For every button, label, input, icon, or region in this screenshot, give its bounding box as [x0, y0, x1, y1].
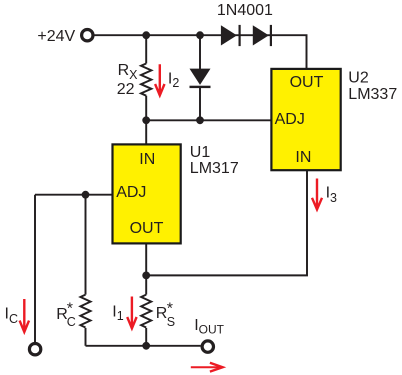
svg-text:IN: IN — [139, 151, 155, 168]
svg-text:ADJ: ADJ — [275, 111, 305, 128]
junction top rail / D3 — [196, 31, 204, 39]
svg-text:*: * — [167, 301, 173, 318]
junction ADJ rail / RC — [82, 191, 90, 199]
junction second rail / RX — [142, 116, 150, 124]
regulator U2 — [271, 69, 340, 170]
svg-text:LM317: LM317 — [190, 160, 239, 177]
current arrow IOUT — [210, 363, 223, 372]
junction top rail / RX — [142, 31, 150, 39]
svg-text:U2: U2 — [348, 69, 369, 86]
junction bottom rail / RS bottom — [142, 342, 150, 350]
wire RS branch lower — [145, 328, 147, 346]
svg-text:U1: U1 — [190, 144, 211, 161]
junction second rail / D3 — [196, 116, 204, 124]
terminal +24V — [82, 30, 93, 41]
terminal IC — [29, 344, 40, 355]
svg-text:22: 22 — [117, 81, 135, 98]
current arrow IC — [20, 299, 29, 332]
wire RX branch upper — [145, 35, 147, 63]
wire RS branch upper — [145, 275, 147, 294]
wire second rail to U2 ADJ pin — [146, 119, 271, 121]
svg-text:R: R — [156, 305, 168, 322]
current arrow I3 — [312, 179, 322, 210]
resistor RX — [141, 64, 151, 96]
diode D3 — [190, 69, 211, 85]
svg-text:OUT: OUT — [290, 74, 324, 91]
current arrow I1 — [127, 297, 136, 329]
resistor RC — [80, 295, 90, 328]
terminal IOUT — [202, 341, 213, 352]
regulator U1 — [113, 144, 181, 243]
wire U2 IN pin down and left to OUT junction — [146, 170, 307, 275]
current arrow I2 — [155, 64, 164, 95]
wire U1 ADJ rail — [35, 194, 113, 196]
svg-text:ADJ: ADJ — [116, 184, 146, 201]
wire RX branch lower — [145, 96, 147, 121]
junction OUT rail / RS top — [142, 272, 150, 280]
diode D1 (1N4001) — [221, 25, 237, 45]
wire bottom rail to IOUT terminal — [86, 345, 201, 347]
svg-text:1N4001: 1N4001 — [217, 2, 273, 19]
svg-text:LM337: LM337 — [348, 86, 397, 103]
wire diode D3 branch upper — [199, 35, 201, 70]
svg-text:*: * — [67, 301, 73, 318]
resistor RS — [141, 295, 151, 328]
wire left column to IC terminal — [34, 195, 36, 344]
wire diode D3 branch lower — [199, 87, 201, 121]
wire U1 IN pin — [145, 120, 147, 144]
svg-text:+24V: +24V — [37, 28, 75, 45]
wire RC branch lower — [85, 328, 87, 346]
diode D2 (1N4001) — [253, 25, 269, 45]
wire U1 OUT pin down — [145, 243, 147, 275]
svg-text:IN: IN — [295, 149, 311, 166]
svg-text:OUT: OUT — [130, 220, 164, 237]
wire top rail from +24V terminal to U2 OUT pin — [94, 35, 306, 69]
wire RC branch upper — [85, 195, 87, 295]
